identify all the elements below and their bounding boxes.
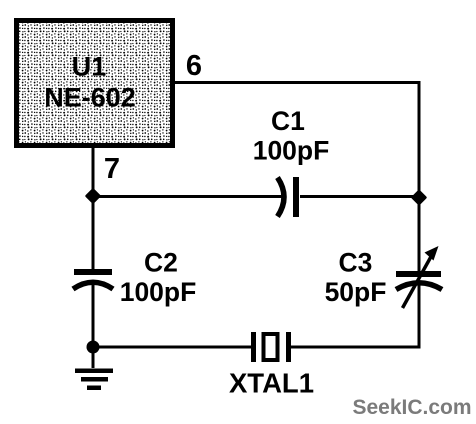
svg-text:6: 6 — [186, 50, 202, 82]
crystal XTAL1 — [251, 332, 291, 362]
svg-text:100pF: 100pF — [253, 136, 330, 166]
svg-text:U1: U1 — [72, 52, 107, 82]
capacitor C1 — [278, 177, 300, 217]
wire right vertical below C3 — [418, 281, 421, 349]
capacitor C2 — [73, 269, 113, 289]
node junction pin7 — [87, 190, 100, 203]
ground — [75, 347, 113, 390]
wire left vertical below C2 — [92, 281, 95, 347]
wire bottom right of XTAL1 — [291, 346, 419, 349]
wire left vertical above C2 — [92, 197, 95, 273]
wire mid horizontal left of C1 — [93, 195, 282, 198]
svg-text:C3: C3 — [339, 248, 373, 278]
svg-text:C1: C1 — [271, 106, 305, 136]
wire mid horizontal right of C1 — [300, 195, 419, 198]
svg-text:NE-602: NE-602 — [44, 83, 136, 113]
svg-text:XTAL1: XTAL1 — [229, 368, 314, 399]
IC U1 NE-602 — [17, 21, 173, 146]
svg-text:100pF: 100pF — [120, 277, 197, 307]
node junction right mid — [413, 191, 426, 204]
node junction ground — [87, 341, 100, 354]
svg-text:50pF: 50pF — [325, 277, 387, 307]
svg-text:7: 7 — [104, 153, 120, 185]
svg-text:C2: C2 — [144, 248, 178, 278]
pin 7 wire — [92, 148, 95, 196]
svg-text:SeekIC.com: SeekIC.com — [352, 396, 471, 419]
pin 6 wire — [175, 81, 419, 84]
wire right vertical (top section) — [418, 81, 421, 271]
wire bottom left of XTAL1 — [93, 346, 251, 349]
capacitor C3 (variable) — [396, 246, 442, 308]
